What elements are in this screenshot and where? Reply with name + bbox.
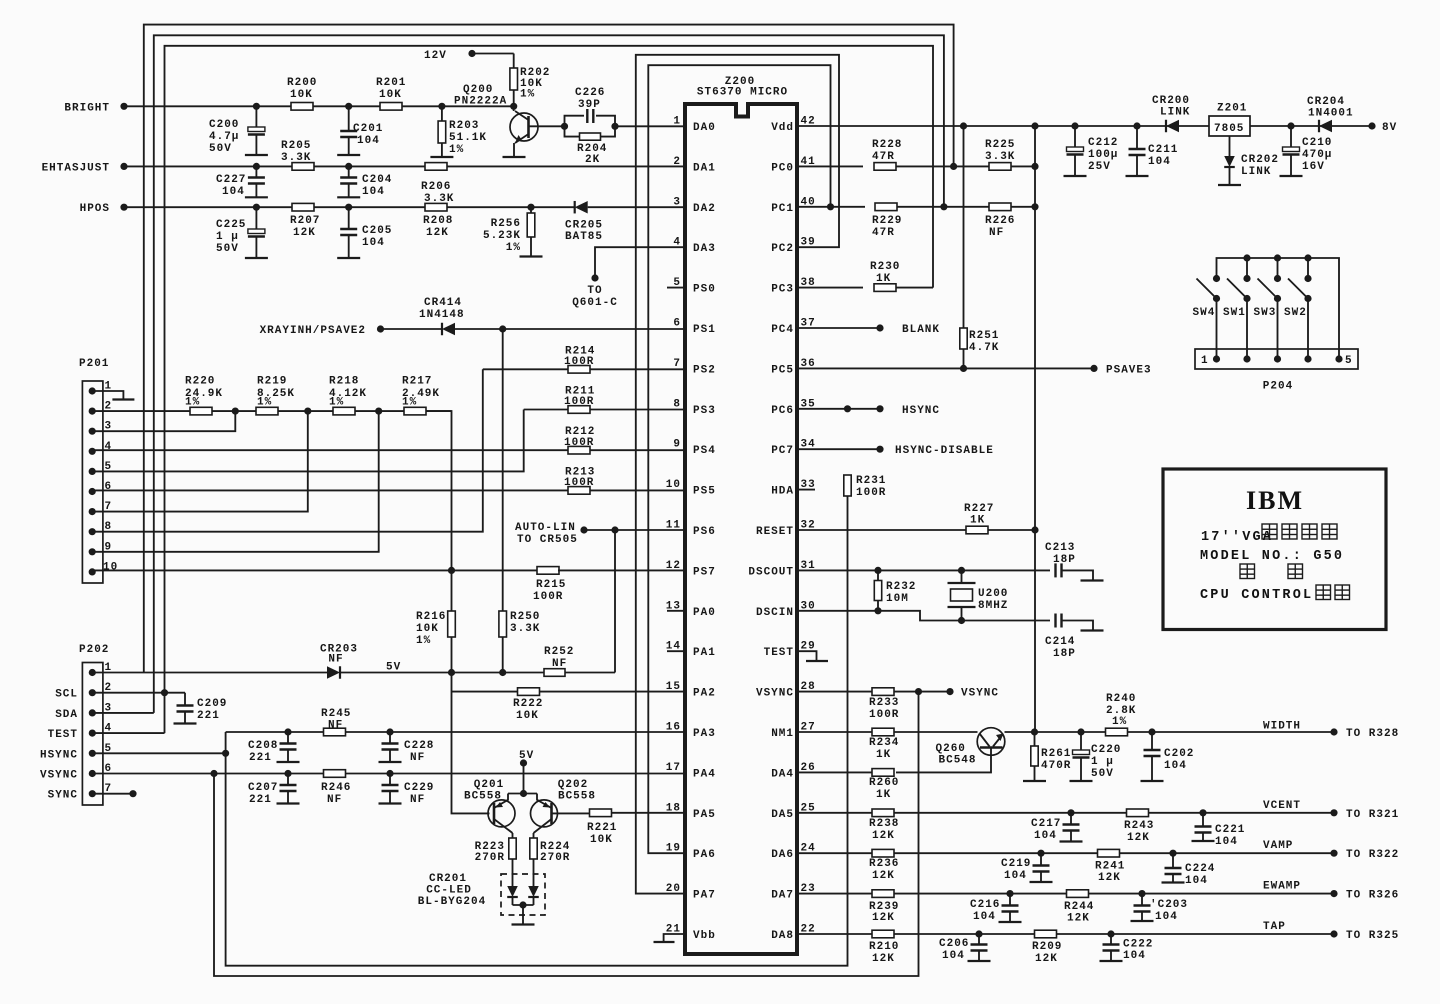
svg-text:C200: C200 <box>209 119 239 131</box>
ground C228 <box>379 761 402 763</box>
wire R202 to node <box>513 90 515 106</box>
svg-text:Z201: Z201 <box>1217 103 1247 115</box>
capacitor C201 <box>348 106 350 131</box>
wire VSYNC row (PA4) <box>92 773 685 775</box>
ground C225 <box>245 257 268 259</box>
node TO Q601-C <box>592 275 598 281</box>
svg-text:12V: 12V <box>424 50 447 62</box>
junction C206 <box>976 931 982 937</box>
resistor R211 <box>568 406 590 414</box>
P201 pin1 ground stub <box>92 391 123 400</box>
junction C202 <box>1149 729 1155 735</box>
svg-text:PS4: PS4 <box>693 445 716 457</box>
svg-text:DA3: DA3 <box>693 243 716 255</box>
svg-text:TO R326: TO R326 <box>1346 890 1399 902</box>
svg-text:TAP: TAP <box>1263 921 1286 933</box>
resistor R232 <box>877 570 879 580</box>
svg-text:C209: C209 <box>197 698 227 710</box>
resistor R219 <box>256 407 278 415</box>
svg-text:R232: R232 <box>886 581 916 593</box>
svg-text:104: 104 <box>222 186 245 198</box>
svg-text:1%: 1% <box>329 397 344 409</box>
svg-text:C219: C219 <box>1001 858 1031 870</box>
svg-text:12K: 12K <box>1127 832 1150 844</box>
ground C216 <box>999 921 1022 923</box>
resistor R240 <box>1106 728 1128 736</box>
P201 pin 2 <box>89 408 95 414</box>
P201 pin 10 <box>89 569 95 575</box>
capacitor C214 18P <box>1054 614 1056 628</box>
svg-text:7805: 7805 <box>1214 123 1244 135</box>
ground C205 <box>337 257 360 259</box>
junction Q200 base node <box>511 103 517 109</box>
node 8V <box>1369 123 1375 129</box>
resistor R252 NF <box>544 669 565 677</box>
svg-text:R220: R220 <box>185 376 215 388</box>
junction C212 <box>1072 123 1078 129</box>
wire R214 to IC pin7 <box>590 368 685 370</box>
svg-text:20: 20 <box>666 883 681 895</box>
wire Q202 base to R221 <box>552 812 591 814</box>
switch SW1 <box>1244 275 1250 281</box>
junction C219 <box>1038 850 1044 856</box>
svg-text:SYNC: SYNC <box>48 790 78 802</box>
svg-text:10K: 10K <box>379 89 402 101</box>
svg-text:CR205: CR205 <box>565 220 603 232</box>
svg-text:SW2: SW2 <box>1284 307 1307 319</box>
svg-text:12K: 12K <box>1035 953 1058 965</box>
junction 5V emitters <box>520 790 526 796</box>
resistor R200 <box>291 103 313 111</box>
junction ladder-1 <box>232 408 238 414</box>
ground C210 <box>1280 175 1303 177</box>
IBM title box <box>1163 469 1386 630</box>
wire P201-8 row riser to PS2 <box>92 369 483 531</box>
wire P201-6 row to R213 <box>92 489 568 491</box>
svg-text:1%: 1% <box>402 397 417 409</box>
svg-text:PS6: PS6 <box>693 526 716 538</box>
IC pin 33 HDA nc stub <box>797 489 815 491</box>
svg-text:P201: P201 <box>79 358 109 370</box>
svg-text:18P: 18P <box>1053 648 1076 660</box>
svg-text:PS7: PS7 <box>693 566 716 578</box>
svg-text:R219: R219 <box>257 376 287 388</box>
junction crystal bottom <box>958 617 964 623</box>
junction R251 PSAVE3 <box>960 365 966 371</box>
svg-text:VAMP: VAMP <box>1263 840 1293 852</box>
svg-text:C201: C201 <box>353 123 383 135</box>
svg-text:1 µ: 1 µ <box>1091 756 1114 768</box>
resistor R238 <box>872 809 894 817</box>
svg-text:PA5: PA5 <box>693 809 716 821</box>
resistor R214 <box>568 366 590 374</box>
svg-text:104: 104 <box>1164 760 1187 772</box>
svg-text:C208: C208 <box>248 740 278 752</box>
junction PC1-B <box>941 204 947 210</box>
svg-text:100R: 100R <box>564 356 594 368</box>
svg-text:PC4: PC4 <box>771 324 794 336</box>
junction ladder-3 <box>376 408 382 414</box>
P202 pin 5 <box>89 750 95 756</box>
wire R252 to PS6 riser <box>565 672 615 674</box>
wire P201-10 row to R215 <box>92 569 538 571</box>
P201 pin 3 <box>89 428 95 434</box>
svg-text:2K: 2K <box>585 154 600 166</box>
wire HSYNC row <box>92 752 225 754</box>
resistor R228 <box>874 163 896 171</box>
wire PS6 riser to R252 row <box>614 530 616 673</box>
svg-text:NF: NF <box>328 720 343 732</box>
P201 pin 7 <box>89 509 95 515</box>
svg-text:1N4001: 1N4001 <box>1308 108 1354 120</box>
wire PC3 row with R230 <box>797 287 863 289</box>
svg-text:10K: 10K <box>416 623 439 635</box>
svg-text:R205: R205 <box>281 140 311 152</box>
svg-text:50V: 50V <box>209 143 232 155</box>
wire P201-3 riser <box>92 411 235 431</box>
capacitor C217 <box>1070 813 1072 825</box>
svg-text:NF: NF <box>410 794 425 806</box>
svg-text:R245: R245 <box>321 708 351 720</box>
junction C229 <box>387 770 393 776</box>
svg-text:NM1: NM1 <box>771 728 794 740</box>
resistor R256 <box>530 207 532 213</box>
svg-text:R222: R222 <box>513 698 543 710</box>
wire RESET row <box>797 529 966 531</box>
svg-text:R225: R225 <box>985 139 1015 151</box>
switch SW2 <box>1305 275 1311 281</box>
svg-text:RESET: RESET <box>756 526 794 538</box>
resistor R212 <box>568 446 590 454</box>
ground C219 <box>1030 881 1053 883</box>
svg-text:PC2: PC2 <box>771 243 794 255</box>
wire DA7 EWAMP row <box>797 893 1334 895</box>
svg-text:DA2: DA2 <box>693 203 716 215</box>
wire PS3 row <box>524 409 568 411</box>
svg-text:C216: C216 <box>970 899 1000 911</box>
svg-text:50V: 50V <box>216 243 239 255</box>
P204 pin <box>1305 356 1311 362</box>
wire PSAVE3 row <box>797 367 1094 369</box>
svg-text:25V: 25V <box>1088 161 1111 173</box>
svg-text:R236: R236 <box>869 858 899 870</box>
diode CR202 LINK <box>1229 136 1231 156</box>
svg-text:104: 104 <box>942 950 965 962</box>
capacitor C229 <box>389 774 391 786</box>
svg-text:104: 104 <box>1123 950 1146 962</box>
resistor R208 <box>425 203 447 211</box>
svg-text:HSYNC-DISABLE: HSYNC-DISABLE <box>895 445 994 457</box>
svg-text:DSCIN: DSCIN <box>756 607 794 619</box>
svg-text:5.23K: 5.23K <box>483 230 521 242</box>
IC pin 13 PA0 nc stub <box>667 610 685 612</box>
switch SW4 <box>1213 275 1219 281</box>
svg-text:17: 17 <box>666 762 681 774</box>
svg-text:SW4: SW4 <box>1193 307 1216 319</box>
P201 pin 5 <box>89 468 95 474</box>
svg-text:4.7µ: 4.7µ <box>209 131 239 143</box>
svg-text:10: 10 <box>666 479 681 491</box>
resistor R223 <box>512 833 514 838</box>
resistor R234 <box>872 728 894 736</box>
junction R232 top <box>875 567 881 573</box>
svg-text:R206: R206 <box>421 181 451 193</box>
capacitor C216 <box>1009 894 1011 906</box>
svg-text:1K: 1K <box>970 515 985 527</box>
svg-text:WIDTH: WIDTH <box>1263 720 1301 732</box>
IC pin 5 PS0 nc stub <box>667 287 685 289</box>
svg-text:'C203: 'C203 <box>1150 899 1188 911</box>
junction R225 rail <box>1032 163 1038 169</box>
ground Q200 emitter <box>503 156 526 158</box>
svg-text:NF: NF <box>328 654 343 666</box>
wire 5V row to R252 <box>340 672 452 674</box>
svg-text:12K: 12K <box>426 227 449 239</box>
wire Q260 base <box>896 748 991 773</box>
junction R250 top <box>500 326 506 332</box>
node HSYNC <box>877 406 883 412</box>
svg-text:104: 104 <box>1185 875 1208 887</box>
ground C200 <box>245 154 268 156</box>
svg-text:9: 9 <box>673 439 681 451</box>
svg-text:PC3: PC3 <box>771 284 794 296</box>
svg-text:CR204: CR204 <box>1307 96 1345 108</box>
ground CR202 <box>1218 184 1241 186</box>
junction VSYNC riser <box>915 689 921 695</box>
svg-text:C227: C227 <box>216 174 246 186</box>
svg-text:Vbb: Vbb <box>693 930 716 942</box>
wire loop C top/left (PC3 to SCL/TEST) <box>165 46 934 733</box>
svg-text:100R: 100R <box>533 591 563 603</box>
junction C217 <box>1068 810 1074 816</box>
svg-text:R238: R238 <box>869 818 899 830</box>
wire IC pin4 to Q601-C stub <box>595 247 685 278</box>
svg-text:DA6: DA6 <box>771 849 794 861</box>
svg-text:DA0: DA0 <box>693 122 716 134</box>
resistor R218 <box>333 407 355 415</box>
wire R225 to rail <box>1011 165 1035 167</box>
junction Vdd R251 <box>960 123 966 129</box>
svg-text:PS1: PS1 <box>693 324 716 336</box>
svg-text:100R: 100R <box>856 487 886 499</box>
wire Q260 emitter to node <box>1005 731 1035 733</box>
resistor R206 <box>425 163 447 171</box>
wire switch rail <box>1217 258 1340 359</box>
svg-text:NF: NF <box>552 658 567 670</box>
capacitor C227 <box>255 166 257 177</box>
svg-text:CPU CONTROL: CPU CONTROL <box>1200 588 1313 603</box>
svg-text:TO CR505: TO CR505 <box>517 534 578 546</box>
ground C203 <box>1131 920 1154 922</box>
svg-text:LINK: LINK <box>1241 166 1271 178</box>
svg-text:BRIGHT: BRIGHT <box>64 102 110 114</box>
junction SCL <box>161 690 167 696</box>
svg-text:R200: R200 <box>287 77 317 89</box>
svg-text:19: 19 <box>666 843 681 855</box>
junction VSYNC riser <box>211 770 217 776</box>
svg-text:1%: 1% <box>257 397 272 409</box>
svg-text:C224: C224 <box>1185 863 1215 875</box>
svg-text:DA1: DA1 <box>693 162 716 174</box>
wire AUTO-LIN to IC pin11 <box>584 529 685 531</box>
wire SCL row <box>92 692 185 694</box>
svg-text:DA5: DA5 <box>771 809 794 821</box>
wire DA4 row <box>797 771 872 773</box>
resistor R260 <box>872 769 894 777</box>
node VSYNC <box>947 689 953 695</box>
node HPOS <box>121 204 127 210</box>
svg-text:R228: R228 <box>872 139 902 151</box>
svg-text:1 µ: 1 µ <box>216 231 239 243</box>
svg-text:100R: 100R <box>564 477 594 489</box>
svg-text:P204: P204 <box>1263 381 1293 393</box>
resistor R207 <box>292 203 314 211</box>
capacitor C228 <box>389 732 391 744</box>
svg-text:PS3: PS3 <box>693 405 716 417</box>
ground C224 <box>1162 881 1185 883</box>
wire PC6 HSYNC row <box>797 408 880 410</box>
junction R203 <box>439 103 445 109</box>
wire WIDTH row <box>1035 731 1335 733</box>
wire HPOS row <box>124 206 575 208</box>
junction R216 top <box>448 567 454 573</box>
svg-text:12K: 12K <box>872 953 895 965</box>
IC pin 29 TEST stub symbol <box>797 651 817 661</box>
junction HSYNC <box>223 750 229 756</box>
svg-text:12K: 12K <box>1067 913 1090 925</box>
svg-text:R208: R208 <box>423 215 453 227</box>
junction C228 <box>387 729 393 735</box>
wire loop E (PC1 to PA6) <box>648 65 830 853</box>
resistor R251 <box>963 126 965 328</box>
svg-text:R215: R215 <box>536 579 566 591</box>
svg-text:BLANK: BLANK <box>902 324 940 336</box>
svg-text:C217: C217 <box>1031 818 1061 830</box>
svg-text:104: 104 <box>1034 830 1057 842</box>
svg-text:221: 221 <box>249 752 272 764</box>
switch SW3 <box>1274 275 1280 281</box>
svg-text:8V: 8V <box>1382 122 1397 134</box>
resistor R225 <box>989 163 1011 171</box>
svg-text:3.3K: 3.3K <box>985 151 1015 163</box>
svg-text:100R: 100R <box>564 437 594 449</box>
resistor R215 <box>537 567 559 575</box>
wire DA6 VAMP row <box>797 852 1334 854</box>
ground C212 <box>1064 175 1087 177</box>
svg-text:C205: C205 <box>362 225 392 237</box>
svg-text:4.7K: 4.7K <box>969 342 999 354</box>
capacitor C208 <box>287 732 289 744</box>
svg-text:10: 10 <box>103 561 118 573</box>
svg-text:CR202: CR202 <box>1241 154 1279 166</box>
wire 5V row (P202-1) <box>92 672 327 674</box>
svg-text:10M: 10M <box>886 593 909 605</box>
wire P201-2 ladder row <box>92 410 451 412</box>
svg-text:Q260: Q260 <box>936 743 966 755</box>
svg-text:R230: R230 <box>870 261 900 273</box>
wire DA5 VCENT row <box>797 812 1334 814</box>
svg-text:8MHZ: 8MHZ <box>978 600 1008 612</box>
P204 pin <box>1274 356 1280 362</box>
svg-text:8: 8 <box>673 398 681 410</box>
wire loop VSYNC bottom (P202-6 to VSYNC node) <box>214 692 919 976</box>
svg-text:IBM: IBM <box>1246 486 1304 515</box>
P201 pin 1 <box>89 388 95 394</box>
wire loop D (PC2 to PA7) <box>636 55 839 894</box>
junction C224 <box>1170 850 1176 856</box>
svg-text:1K: 1K <box>876 749 891 761</box>
resistor R220 <box>190 407 212 415</box>
capacitor C204 <box>348 166 350 177</box>
svg-text:C212: C212 <box>1088 137 1118 149</box>
svg-text:R210: R210 <box>869 941 899 953</box>
svg-text:R226: R226 <box>985 215 1015 227</box>
svg-text:TO R322: TO R322 <box>1346 849 1399 861</box>
resistor R231 <box>844 475 851 496</box>
resistor R213 <box>568 487 590 495</box>
ground R261 <box>1023 780 1046 782</box>
crystal U200 8MHZ <box>948 582 976 584</box>
svg-text:104: 104 <box>357 135 380 147</box>
svg-text:270R: 270R <box>540 852 570 864</box>
svg-text:R217: R217 <box>402 376 432 388</box>
svg-text:10K: 10K <box>590 834 613 846</box>
svg-text:Q200: Q200 <box>463 84 493 96</box>
P202 pin 7 <box>89 791 95 797</box>
P204 pin <box>1336 356 1342 362</box>
wire P201-5 row riser to PS3 <box>92 410 524 472</box>
node C226 right <box>612 123 618 129</box>
svg-text:BC558: BC558 <box>558 791 596 803</box>
wire Q201 base feed <box>452 673 490 814</box>
junction C220 <box>1078 729 1084 735</box>
svg-text:SCL: SCL <box>55 689 78 701</box>
capacitor C203 <box>1141 894 1143 906</box>
svg-text:C226: C226 <box>575 87 605 99</box>
wire SDA row <box>92 712 154 714</box>
resistor R243 <box>1127 809 1149 817</box>
ground C217 <box>1060 840 1083 842</box>
wire NM1 row <box>797 731 978 733</box>
junction Vdd rail <box>1032 123 1038 129</box>
junction C211 <box>1134 123 1140 129</box>
svg-text:R207: R207 <box>290 215 320 227</box>
junction ladder-2 <box>305 408 311 414</box>
svg-text:C221: C221 <box>1215 824 1245 836</box>
capacitor C206 <box>978 934 980 945</box>
svg-text:SW1: SW1 <box>1223 307 1246 319</box>
svg-text:R261: R261 <box>1041 748 1071 760</box>
wire DSCIN row <box>797 610 878 612</box>
svg-text:7: 7 <box>673 358 681 370</box>
wire 5V to emitters <box>523 763 525 794</box>
resistor R226 NF <box>989 203 1011 211</box>
svg-text:R246: R246 <box>321 782 351 794</box>
svg-text:TO R325: TO R325 <box>1346 930 1399 942</box>
wire Q200 to C226 block <box>529 125 565 127</box>
resistor R222 <box>518 688 540 696</box>
svg-text:C207: C207 <box>248 782 278 794</box>
junction PC1-E <box>827 204 833 210</box>
svg-text:R216: R216 <box>416 611 446 623</box>
resistor R221 <box>590 809 612 817</box>
resistor R233 <box>872 688 894 696</box>
junction R216 bottom <box>448 669 454 675</box>
ground C207 <box>277 802 300 804</box>
svg-text:C225: C225 <box>216 219 246 231</box>
svg-text:Q201: Q201 <box>474 779 504 791</box>
P202 pin 1 <box>89 669 95 675</box>
